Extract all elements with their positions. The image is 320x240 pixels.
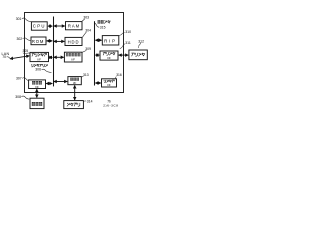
wire imgbus-scannerIF — [95, 82, 100, 84]
svg-text:HDD: HDD — [68, 39, 80, 44]
wire imgbus-RIP — [95, 39, 101, 41]
wire LAN-net — [10, 56, 29, 59]
label image bus 315 — [98, 20, 111, 23]
label system bus 306 — [31, 64, 47, 67]
wire bus-media — [54, 56, 64, 58]
svg-text:313: 313 — [83, 73, 89, 77]
box CPU — [31, 22, 47, 30]
svg-text:314: 314 — [87, 99, 93, 103]
svg-text:301: 301 — [16, 17, 22, 21]
system bus — [53, 17, 55, 87]
box HDD — [65, 37, 82, 45]
box printer I/F — [100, 51, 118, 60]
svg-text:I/F: I/F — [37, 57, 41, 61]
wire net-bus — [49, 56, 52, 58]
box media I/F — [64, 52, 82, 62]
box operation unit (external) — [30, 98, 44, 108]
svg-text:RAM: RAM — [68, 23, 80, 28]
svg-text:315: 315 — [100, 26, 106, 30]
svg-text:308: 308 — [15, 95, 21, 99]
box device I/F — [68, 77, 81, 85]
svg-text:CPU: CPU — [33, 24, 46, 29]
image bus — [94, 21, 96, 85]
wire printerIF-printer — [119, 54, 129, 56]
box drive (external) — [64, 101, 84, 109]
wire device-drive vertical — [74, 85, 76, 100]
wire imgbus-printerIF — [95, 54, 99, 56]
box network I/F — [30, 52, 49, 61]
box RIP — [102, 36, 119, 45]
svg-text:307: 307 — [16, 76, 22, 80]
box scanner I/F — [102, 79, 117, 87]
svg-text:316: 316 — [116, 73, 122, 77]
wire opeIF-bus — [46, 83, 52, 85]
svg-text:I/F: I/F — [71, 58, 75, 62]
svg-text:312: 312 — [138, 39, 144, 43]
svg-text:70: 70 — [2, 55, 6, 59]
svg-text:I/F: I/F — [107, 56, 111, 60]
svg-text:ROM: ROM — [32, 39, 44, 44]
wire bus-HDD — [54, 40, 65, 42]
box printer (external) — [129, 50, 147, 60]
svg-text:2)6-3C8: 2)6-3C8 — [103, 104, 118, 108]
svg-text:305: 305 — [23, 49, 29, 53]
box RAM — [66, 22, 83, 30]
svg-text:311: 311 — [125, 41, 131, 45]
box ROM — [31, 37, 46, 45]
svg-text:306: 306 — [35, 68, 41, 72]
svg-text:I/F: I/F — [35, 85, 39, 89]
label 314 drive — [84, 100, 87, 103]
box ope I/F — [29, 80, 46, 89]
svg-text:I/F: I/F — [73, 81, 77, 85]
wire bus-device — [54, 81, 67, 83]
svg-text:310: 310 — [125, 30, 131, 34]
wire ROM-bus — [47, 40, 53, 42]
svg-text:RIP: RIP — [104, 38, 117, 43]
svg-text:302: 302 — [17, 37, 23, 41]
wire bus-RAM — [54, 25, 65, 27]
wire CPU-bus — [48, 25, 52, 27]
controller outer box — [25, 13, 124, 93]
wire opeIF-ope vertical — [36, 89, 38, 97]
svg-text:I/F: I/F — [107, 83, 111, 87]
